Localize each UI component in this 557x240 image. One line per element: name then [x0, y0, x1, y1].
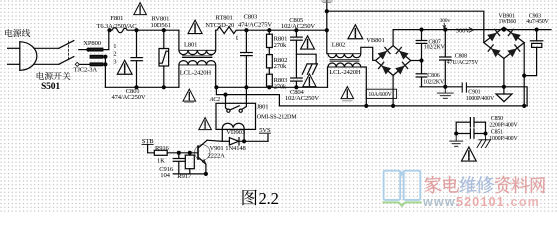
net 5VS stub	[259, 133, 270, 141]
junction VB901 minus at ground segment	[502, 85, 505, 88]
svg-text:VB801: VB801	[366, 37, 384, 44]
junction C804 bottom	[295, 86, 298, 89]
warning triangle above L802	[348, 25, 363, 39]
capacitor C804	[291, 78, 303, 87]
junction wire A tap	[325, 10, 328, 13]
watermark text 家电维修资料网	[424, 175, 544, 193]
varistor RV801	[159, 30, 169, 87]
svg-text:C901: C901	[468, 90, 480, 96]
junction VB801 at AC conductor	[392, 104, 395, 107]
choke L801 bottom winding	[179, 61, 216, 88]
svg-text:C806: C806	[427, 73, 439, 79]
svg-text:LCL-2420H: LCL-2420H	[180, 69, 212, 76]
junction emitter at bottom wire	[204, 172, 207, 175]
capacitor C903 electrolytic	[524, 30, 543, 76]
tiny caution text under L801 triangle	[185, 102, 194, 104]
wire VB801 right to filter caps	[411, 60, 422, 62]
choke L801 top winding	[179, 30, 216, 54]
junction C808 bottom	[444, 85, 447, 88]
diode VD903	[222, 138, 268, 145]
bottom rail middle segment	[216, 86, 328, 88]
svg-text:2200P/400V: 2200P/400V	[489, 123, 518, 129]
svg-text:C851: C851	[491, 130, 503, 136]
wire VB801 minus riser	[392, 75, 394, 106]
label 电源开关	[37, 72, 71, 80]
svg-text:102/AC250V: 102/AC250V	[285, 95, 319, 102]
label box 10A/600V	[366, 89, 396, 98]
svg-text:T6.3A/250VAC: T6.3A/250VAC	[97, 23, 138, 30]
svg-text:2: 2	[113, 51, 116, 58]
caption 图2.2	[242, 190, 256, 206]
earth ground under C808	[437, 87, 453, 99]
warning triangle near C851	[462, 147, 477, 161]
svg-text:L802: L802	[332, 42, 345, 49]
arrow 300V left	[469, 27, 474, 32]
wire VB801 plus riser	[392, 30, 394, 46]
top rail left segment with fuse F801	[109, 28, 179, 33]
svg-text:10D561: 10D561	[151, 22, 171, 29]
capacitor C808	[440, 30, 451, 87]
wire 300V rail	[393, 29, 551, 31]
junction C903 top	[535, 28, 538, 31]
svg-text:L801: L801	[184, 41, 197, 48]
junction pin3	[104, 63, 107, 66]
wire pin1 riser to top rail	[103, 30, 109, 49]
svg-text:NTC5D-20: NTC5D-20	[205, 22, 235, 29]
svg-text:J801: J801	[257, 103, 269, 110]
svg-text:300V: 300V	[456, 28, 470, 35]
warning triangle left of 10A box	[341, 87, 354, 99]
power plug (mains cord)	[8, 42, 37, 71]
wire A top AC feed	[327, 0, 484, 42]
capacitor C850	[456, 118, 485, 127]
junction filter tap	[420, 59, 423, 62]
svg-text:10A/600V: 10A/600V	[368, 92, 392, 98]
junction C808 top	[444, 28, 447, 31]
wire VB901 bottom riser	[503, 59, 505, 87]
cropped label at top edge	[322, 1, 333, 3]
capacitor C807	[416, 30, 427, 61]
svg-text:47U/AC275V: 47U/AC275V	[447, 60, 479, 66]
svg-text:F801: F801	[110, 15, 123, 22]
warning triangle above fuse	[134, 3, 147, 15]
svg-text:XP800: XP800	[83, 40, 101, 47]
net STB stub	[142, 144, 154, 152]
wire pins 2-3 bus down to bottom rail	[104, 56, 106, 88]
junction L801 riser at rail	[215, 86, 218, 89]
svg-text:OMI-SS-212DM: OMI-SS-212DM	[257, 114, 298, 120]
connector XP800 pin 3	[75, 62, 103, 66]
warning triangle right of C805	[301, 36, 315, 49]
earth ground under C851	[450, 134, 463, 147]
svg-text:2222A: 2222A	[208, 153, 226, 160]
choke L802 bottom winding	[328, 63, 367, 106]
choke L801 core	[183, 56, 213, 58]
wire cold ground segment	[420, 87, 527, 106]
arrow 300v down	[443, 23, 446, 29]
capacitor C805	[291, 30, 303, 78]
svg-text:102/2KV: 102/2KV	[423, 80, 445, 86]
junction relay contact tap	[224, 93, 227, 96]
junction C916 top	[177, 151, 180, 154]
svg-text:RT801: RT801	[216, 14, 233, 21]
svg-text:LCL-2420H: LCL-2420H	[329, 69, 361, 76]
junction L802 bottom at AC conductor	[365, 104, 368, 107]
svg-text:102/AC250V: 102/AC250V	[281, 23, 315, 30]
junction VB901 top at 300V	[502, 28, 505, 31]
tiny caution text under triangle	[343, 100, 353, 102]
svg-text:474/AC275V: 474/AC275V	[238, 22, 272, 29]
wire AC2 drop to bottom conductor	[279, 95, 527, 106]
choke L802 top winding	[327, 30, 376, 60]
bottom rail left segment	[105, 86, 178, 88]
junction C803 top	[245, 29, 248, 32]
capacitor C803	[241, 30, 253, 87]
watermark url www.520101.com	[422, 195, 540, 209]
warning triangle below spark gap	[303, 74, 316, 87]
svg-text:AC2: AC2	[209, 97, 220, 103]
svg-text:www.: www.	[422, 195, 460, 209]
capacitor C806	[416, 61, 427, 87]
junction C851 left	[455, 132, 458, 135]
warning triangle below L801	[183, 89, 196, 101]
svg-text:5VS: 5VS	[259, 127, 271, 134]
svg-text:102/2KV: 102/2KV	[424, 45, 446, 51]
warning triangle above L801	[188, 20, 202, 33]
connector XP800 pin 2	[90, 55, 103, 58]
bridge rectifier VB801	[376, 46, 411, 76]
svg-text:520101: 520101	[456, 195, 505, 209]
junction C801 bottom	[135, 86, 138, 89]
svg-text:474/AC250V: 474/AC250V	[112, 94, 146, 101]
resistor R803	[267, 68, 273, 87]
svg-text:300v: 300v	[440, 18, 451, 24]
junction RV801 bottom	[162, 86, 165, 89]
svg-text:1000P/400V: 1000P/400V	[466, 96, 495, 102]
junction C803 bottom	[245, 86, 248, 89]
svg-text:104: 104	[160, 172, 170, 179]
svg-text:270k: 270k	[274, 84, 287, 91]
svg-text:270k: 270k	[274, 42, 287, 49]
label 电源线	[5, 29, 30, 37]
chassis ground right of C851	[477, 134, 490, 148]
relay contact right riser	[242, 87, 246, 109]
junction coil right / diode cathode	[243, 140, 246, 143]
choke L802 core	[330, 60, 359, 62]
wire C850-C851 side links	[456, 122, 485, 133]
capacitor C851	[456, 129, 485, 138]
relay coil	[222, 123, 244, 141]
svg-text:R916: R916	[155, 145, 170, 152]
relay contact left riser	[226, 95, 228, 110]
svg-text:.com: .com	[506, 195, 540, 209]
wire VB901 right corner drop	[523, 43, 525, 106]
switch S501	[59, 41, 74, 65]
svg-text:STB: STB	[142, 138, 154, 145]
svg-text:1WB60: 1WB60	[499, 19, 517, 25]
relay contact poles	[227, 106, 243, 112]
junction top rail at pin1 corner	[108, 29, 111, 32]
svg-text:1N4148: 1N4148	[225, 145, 246, 152]
resistor R801	[267, 30, 273, 47]
capacitor C801	[131, 30, 142, 87]
wire plug to switch	[34, 47, 59, 49]
svg-text:R917: R917	[177, 173, 192, 180]
wire branch to chassis spark gap	[296, 54, 316, 64]
junction RV801 top	[162, 29, 165, 32]
svg-text:1: 1	[113, 43, 116, 50]
connector XP800 pin 1	[79, 48, 103, 51]
junction C851 right	[484, 132, 487, 135]
warning triangle near C801	[117, 60, 132, 74]
junction right corner at AC conductor	[523, 104, 526, 107]
svg-text:C850: C850	[491, 116, 503, 122]
svg-text:270k: 270k	[274, 63, 287, 70]
watermark book icon	[382, 171, 421, 206]
wire plug to switch lower	[34, 63, 59, 65]
junction pin2	[104, 55, 107, 58]
wire emitter bottom	[173, 173, 206, 175]
junction R801 top	[268, 29, 271, 32]
transistor V901	[195, 140, 223, 174]
svg-text:V901: V901	[210, 145, 224, 152]
bridge rectifier VB901	[484, 27, 524, 58]
junction C807 top	[420, 28, 423, 31]
capacitor C901 (series)	[462, 83, 466, 92]
resistor R916	[154, 150, 197, 155]
junction R917 top	[188, 151, 191, 154]
svg-text:TJC2-3A: TJC2-3A	[74, 66, 98, 73]
relay J801 box	[216, 103, 256, 129]
chassis ground symbol (spark gap)	[302, 64, 317, 74]
warning triangle left of relay	[199, 118, 212, 130]
resistor R917	[185, 153, 194, 174]
svg-text:1000P/400V: 1000P/400V	[489, 136, 518, 142]
wire AC2 stub from bottom rail	[216, 87, 279, 94]
svg-text:VD903: VD903	[226, 129, 246, 136]
svg-text:1K: 1K	[157, 157, 165, 164]
capacitor C916	[173, 153, 185, 174]
svg-text:S501: S501	[41, 82, 60, 92]
top rail middle segment with thermistor RT801	[216, 27, 327, 34]
svg-text:4u7/450V: 4u7/450V	[526, 19, 549, 25]
svg-text:C808: C808	[455, 53, 467, 59]
svg-text:C803: C803	[244, 14, 259, 21]
junction C801 top	[135, 29, 138, 32]
resistor R802	[267, 48, 273, 68]
junction C805 top	[295, 29, 298, 32]
junction C903 jog	[523, 74, 526, 77]
junction top rail corner	[325, 29, 328, 32]
hollow ground triangle	[496, 87, 512, 102]
junction R803 bottom	[268, 86, 271, 89]
svg-text:2.2: 2.2	[259, 189, 279, 208]
